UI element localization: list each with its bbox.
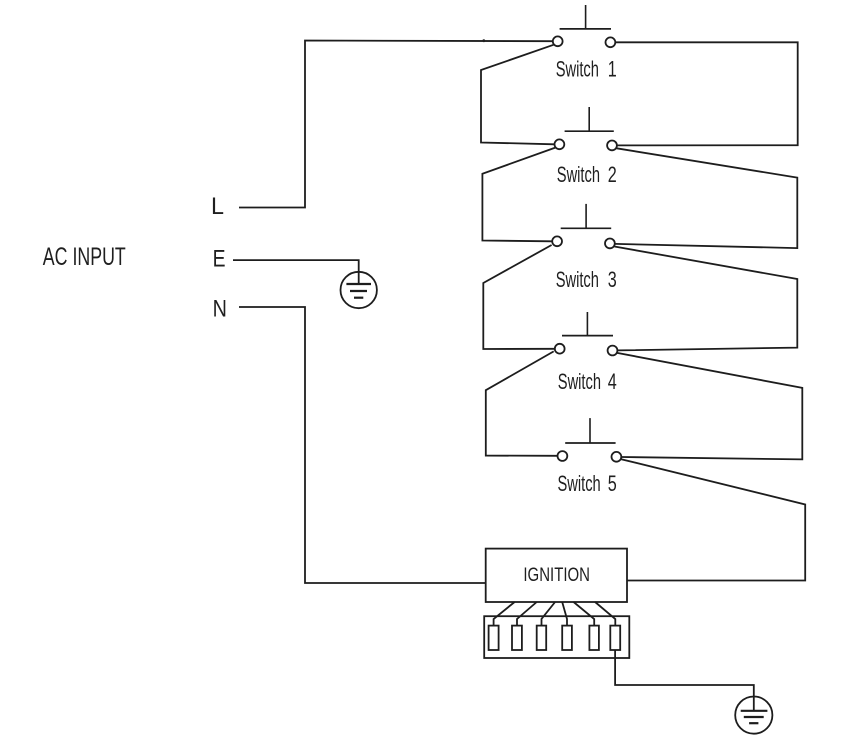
wire SW4 left to SW5 left	[486, 351, 558, 455]
IGNITION box U1	[486, 549, 627, 602]
wire pin6 to earth	[615, 650, 754, 711]
pin 4	[562, 626, 572, 650]
wire SW2 left to SW3 left	[482, 148, 555, 242]
switch SW5	[558, 418, 622, 462]
svg-text:Switch: Switch	[556, 57, 599, 82]
switch SW4	[555, 312, 618, 355]
svg-text:Switch: Switch	[558, 471, 601, 496]
wire SW3 right to SW4 right	[614, 247, 797, 351]
svg-text:Switch: Switch	[558, 369, 601, 394]
wire IGNITION to pin4	[562, 602, 567, 626]
svg-text:5: 5	[608, 471, 617, 496]
junction dot on L wire	[482, 39, 485, 42]
svg-text:L: L	[211, 193, 224, 220]
wire SW3 left to SW4 left	[483, 245, 555, 349]
svg-text:1: 1	[608, 57, 617, 82]
wire IGNITION to pin3	[542, 602, 556, 626]
wire SW4 right to SW5 right	[617, 353, 802, 460]
wire SW2 right to SW3 right	[615, 148, 797, 248]
wire L to Switch1 left terminal	[239, 41, 553, 208]
wire SW1 left to SW2 left	[481, 45, 554, 145]
pin 1	[489, 626, 499, 650]
svg-text:Switch: Switch	[557, 162, 600, 187]
wire IGNITION to pin6	[595, 602, 615, 626]
svg-text:3: 3	[608, 267, 617, 292]
wire SW1 right to SW2 right	[615, 42, 797, 145]
pin 5	[589, 626, 599, 650]
svg-text:IGNITION: IGNITION	[523, 564, 590, 586]
svg-text:2: 2	[608, 162, 617, 187]
connector block J1	[484, 616, 629, 658]
wire N to IGNITION	[239, 307, 486, 583]
wire SW5 right to IGNITION	[621, 459, 805, 580]
switch SW1	[553, 5, 616, 47]
wire IGNITION to pin1	[494, 602, 515, 626]
earth symbol G1	[341, 272, 377, 308]
svg-text:E: E	[213, 246, 226, 273]
pin 6	[610, 626, 620, 650]
switch SW2	[555, 107, 617, 150]
svg-text:AC INPUT: AC INPUT	[43, 244, 126, 271]
wire E to earth	[233, 260, 359, 284]
svg-text:N: N	[213, 295, 227, 322]
pin 2	[512, 626, 522, 650]
svg-text:4: 4	[608, 369, 617, 394]
switch SW3	[552, 204, 615, 248]
pin 3	[537, 626, 547, 650]
wire IGNITION to pin5	[574, 602, 595, 626]
svg-text:Switch: Switch	[556, 267, 599, 292]
earth symbol G2	[735, 697, 772, 734]
wire IGNITION to pin2	[517, 602, 537, 626]
